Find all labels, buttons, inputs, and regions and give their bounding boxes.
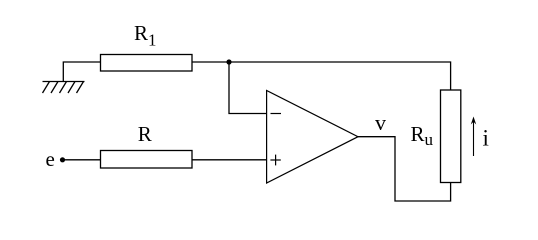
- svg-text:i: i: [483, 126, 489, 151]
- svg-text:R: R: [138, 122, 152, 146]
- svg-text:R1: R1: [134, 21, 157, 49]
- svg-text:Ru: Ru: [411, 122, 434, 149]
- svg-text:v: v: [375, 110, 386, 135]
- svg-text:e: e: [46, 147, 55, 171]
